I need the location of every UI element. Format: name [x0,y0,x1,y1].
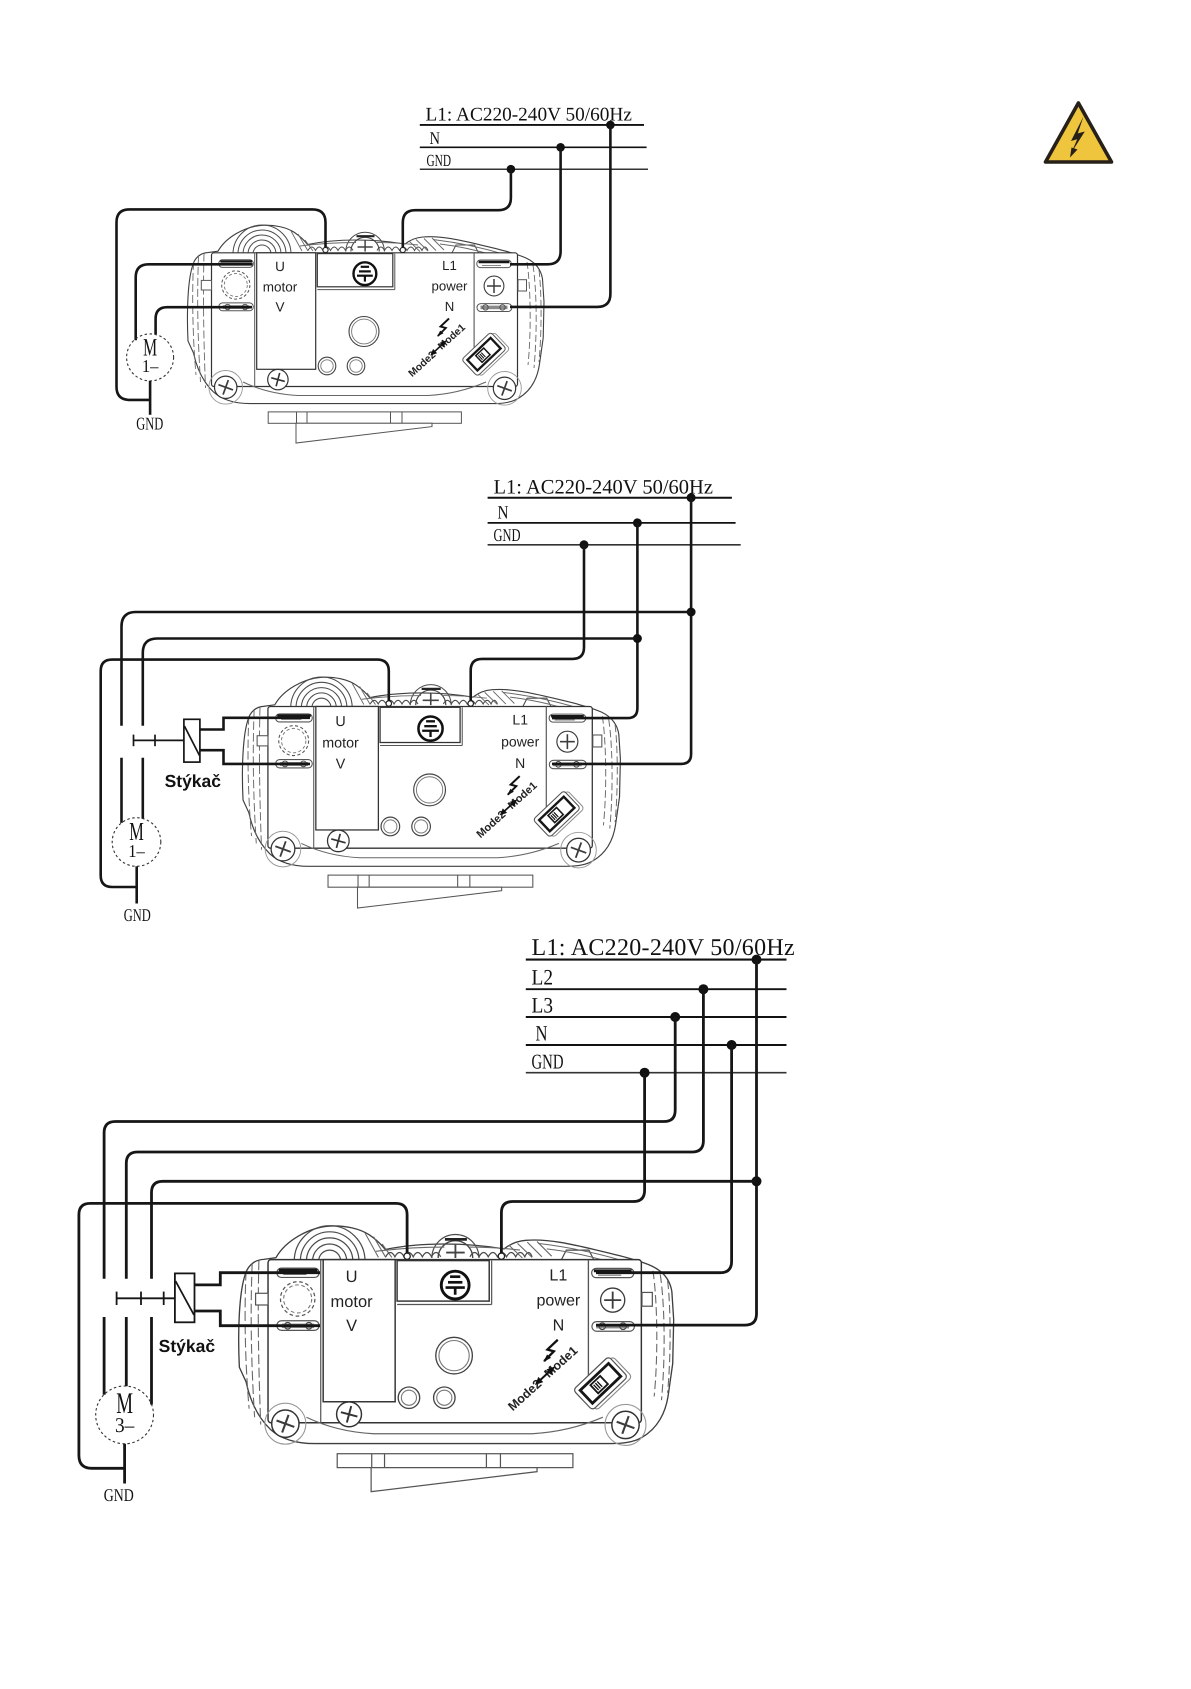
D3 node L1-contact junction [752,1176,762,1186]
svg-text:L3: L3 [532,993,554,1018]
motor M circle [127,334,174,381]
D3 motor gnd lead [123,1444,126,1484]
D2 bus line L1 [488,497,732,499]
D1 node GND [507,165,516,174]
D1 node L1 [606,121,615,130]
D2 wire L1 vertical to N-terminal [552,498,691,764]
lightning bolt [1071,117,1085,153]
svg-text:GND: GND [104,1485,134,1505]
D2 bus line GND [488,544,741,546]
D1 wire N to L1-terminal [510,147,561,264]
D3 wire L1 to contactor [152,1181,757,1404]
motor M circle [112,818,161,867]
D3 contactor stub to U [195,1273,321,1285]
D3 bus line GND [526,1072,787,1074]
D1 motor gnd lead [149,381,152,415]
svg-text:GND: GND [124,905,151,925]
D3 node GND [640,1068,650,1078]
D2 node L1-contact junction [687,608,696,617]
D3 node L1 [752,955,762,965]
D2 node N-contact junction [633,634,642,643]
D2 bus line N [488,522,736,524]
svg-text:N: N [430,128,441,148]
D3 bus line L2 [526,988,787,990]
D3 wire N vertical to L1-terminal [596,1045,732,1273]
D3 contactor contacts [117,1297,175,1299]
D3 bus line L1 [526,959,787,961]
svg-text:Stýkač: Stýkač [165,771,222,791]
D1 bus line N [420,146,647,148]
D2 contactor stub to V [200,750,310,764]
D3 contactor stub to V [195,1311,321,1326]
D2 contactor box [184,719,200,762]
svg-text:Stýkač: Stýkač [159,1336,216,1356]
D1 wire L1 to N-terminal [510,125,610,307]
D3 bus line L3 [526,1016,787,1018]
D1 wire V to motor [156,307,252,334]
D2 motor gnd lead [135,866,138,903]
D1 wire motor GND loop [117,209,326,400]
D2 wire motor GND loop [101,660,389,887]
D1 bus line GND [420,168,648,170]
D3 wire motor GND loop [79,1203,407,1468]
svg-text:1–: 1– [128,841,145,861]
D3 node N [727,1040,737,1050]
D1 wire U to motor [136,264,253,340]
D3 wire L2 to contactor [126,989,703,1386]
svg-text:N: N [536,1021,548,1046]
D1 device [187,225,544,443]
D2 node N [633,518,642,527]
D3 node L2 [698,984,708,994]
svg-text:L2: L2 [532,965,554,990]
svg-text:GND: GND [532,1050,564,1074]
svg-text:GND: GND [427,151,452,170]
D2 device [242,677,620,908]
D2 wire GND to device earth [471,545,584,701]
svg-text:3–: 3– [115,1413,135,1437]
D1 wire GND to device earth [403,169,511,247]
svg-text:L1: AC220-240V 50/60Hz: L1: AC220-240V 50/60Hz [494,477,713,499]
D2 wire L1 to contactor [122,612,692,823]
motor M circle [96,1386,154,1444]
D3 wire GND to device earth [501,1073,644,1254]
D2 contactor contacts [134,739,184,741]
svg-text:GND: GND [136,414,163,434]
D1 node N [556,143,565,152]
D3 device [239,1226,674,1492]
D2 node L1 [687,493,696,502]
D3 wire L1 vertical to N-terminal [596,960,757,1326]
D2 contactor stub to U [200,718,310,730]
svg-text:N: N [498,503,509,524]
svg-text:GND: GND [494,525,521,545]
D2 wire N vertical to L1-terminal [552,523,637,718]
D2 wire N to contactor [143,639,638,819]
svg-text:L1: AC220-240V 50/60Hz: L1: AC220-240V 50/60Hz [426,105,633,126]
D3 node L3 [670,1012,680,1022]
D1 bus line L1 [420,124,644,126]
D2 node GND [580,540,589,549]
D3 wire L3 to contactor [104,1017,675,1395]
D3 contactor box [175,1273,195,1322]
warning triangle [1046,103,1112,162]
D3 bus line N [526,1044,787,1046]
svg-text:1–: 1– [142,356,159,376]
